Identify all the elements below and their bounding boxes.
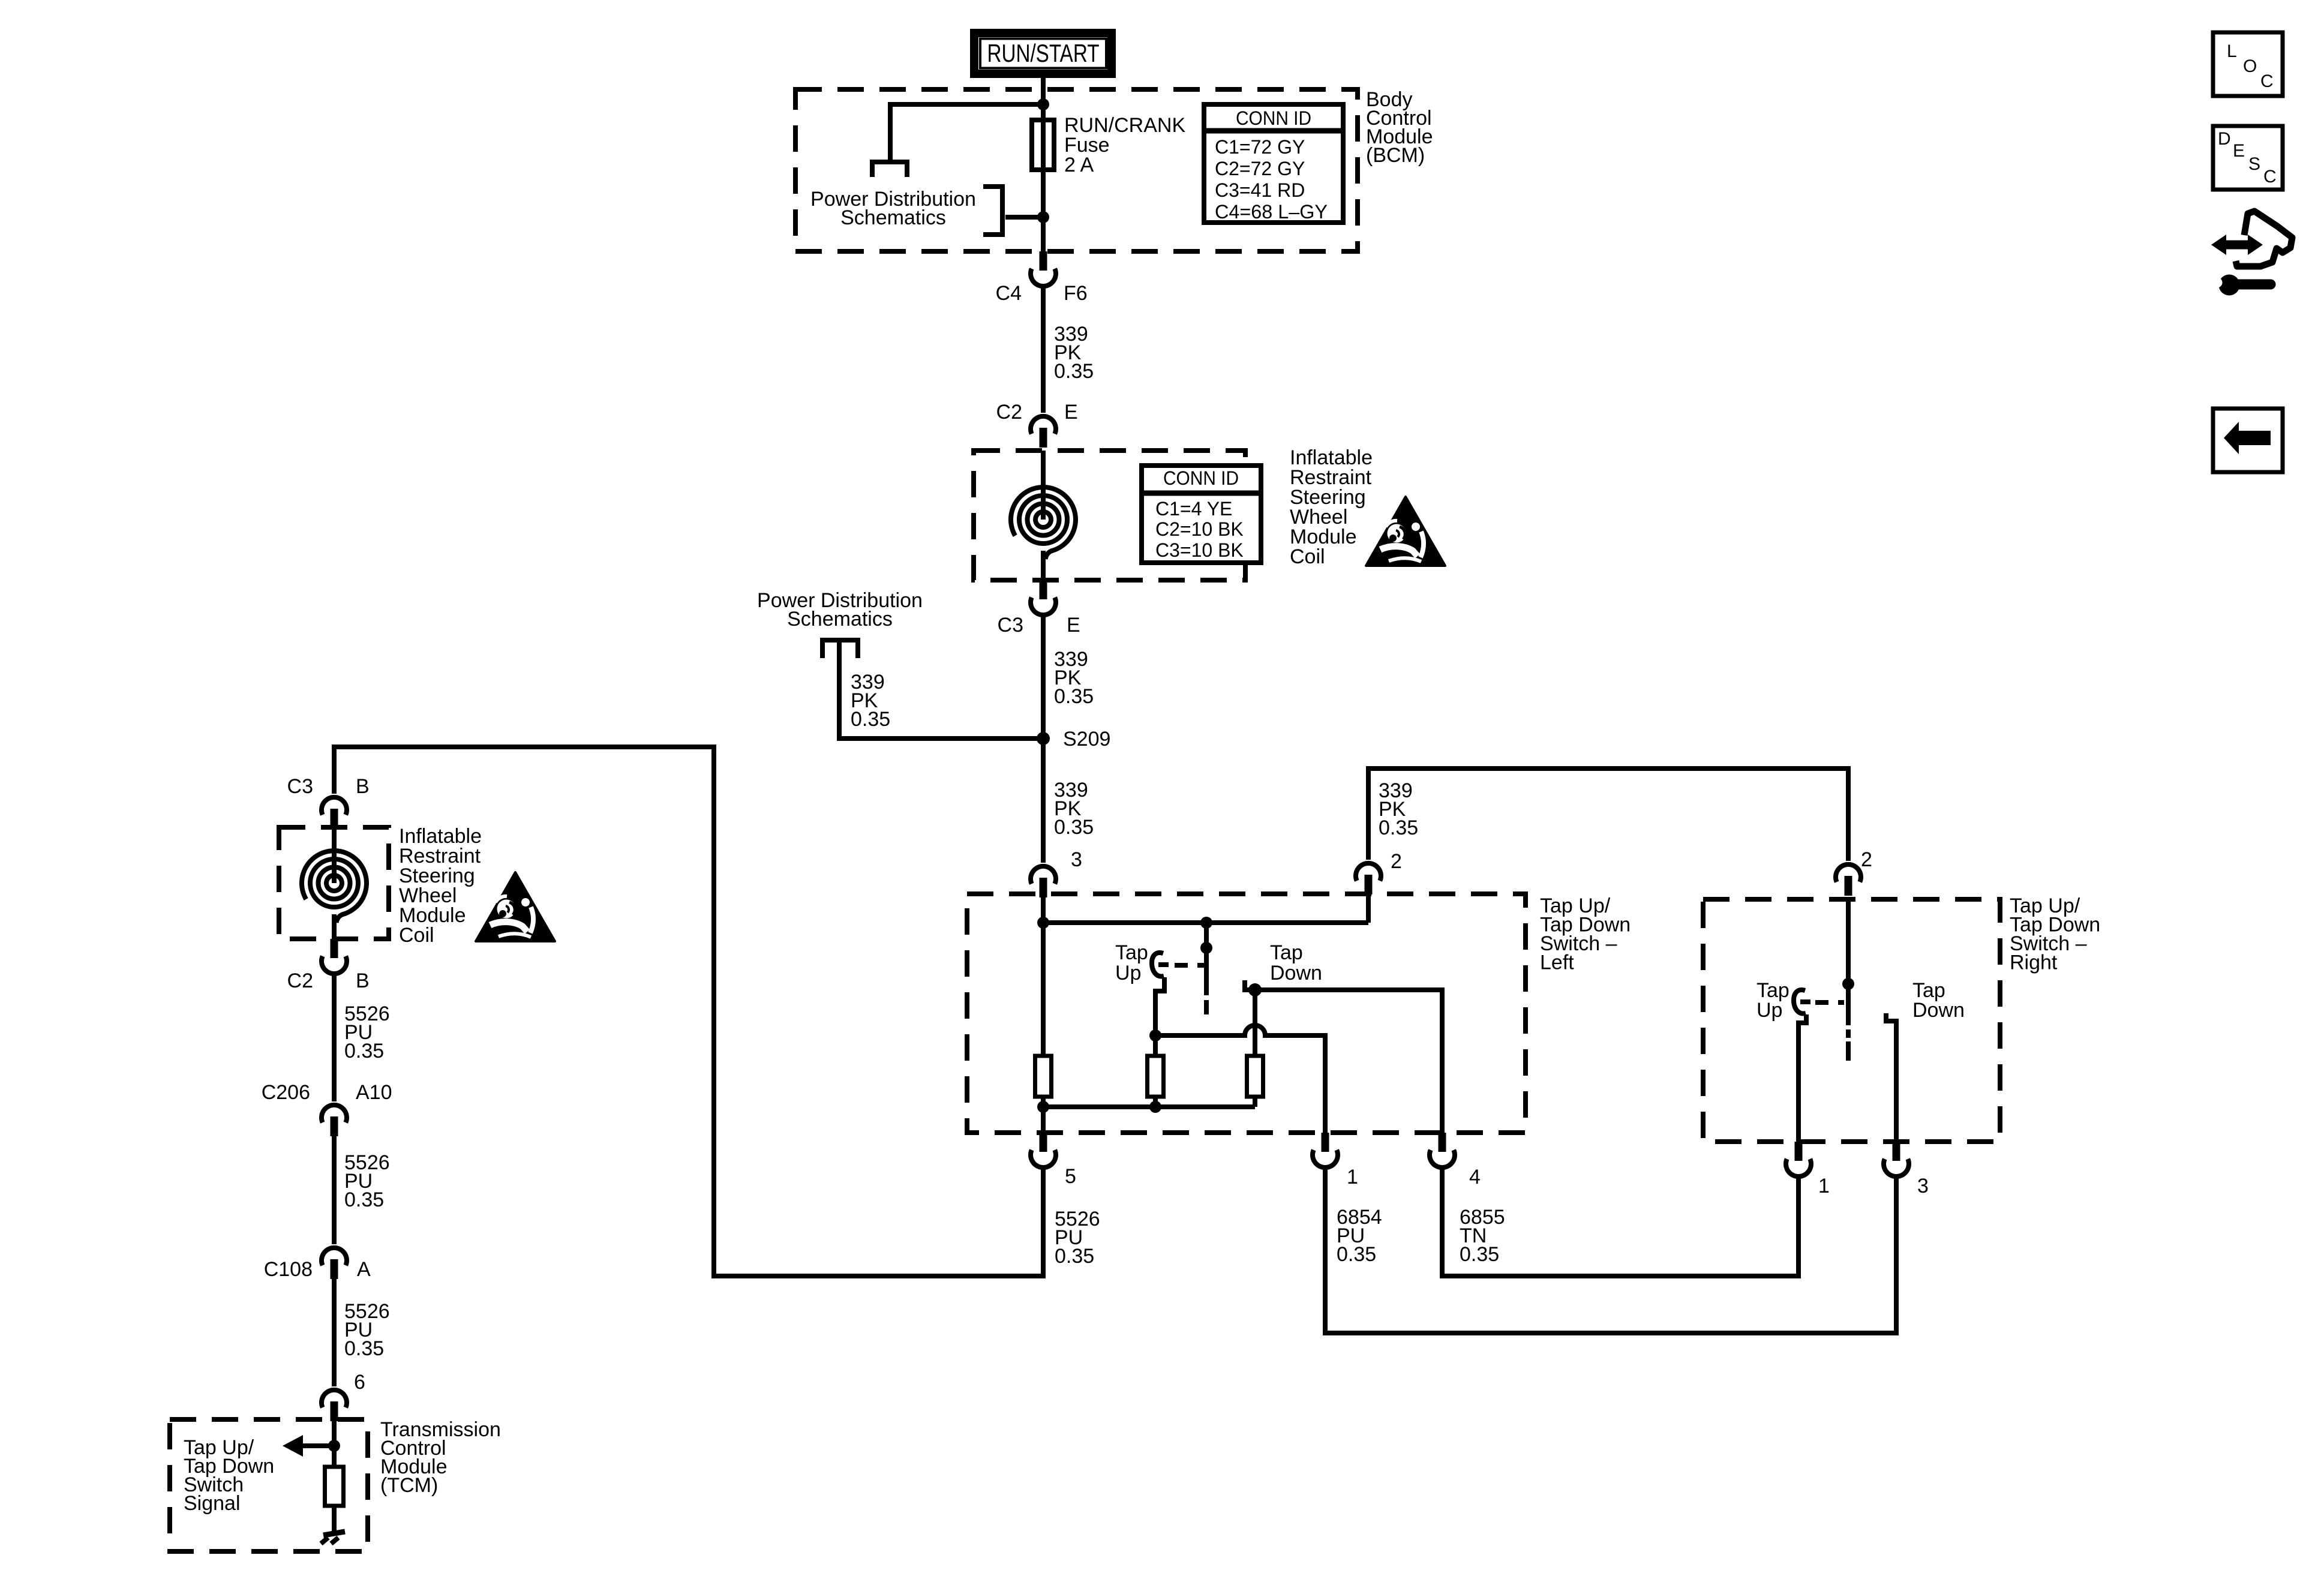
wire out of coil spiral (1041, 551, 1046, 580)
switch Tap Up (right box) (1794, 990, 1810, 1013)
svg-text:6: 6 (354, 1371, 365, 1394)
svg-text:E: E (1064, 401, 1078, 424)
wire 5526 PU 0.35 (C108 to TCM pin 6) (332, 1278, 337, 1386)
svg-text:Coil: Coil (399, 924, 434, 947)
label Tap Up/Tap Down Switch - Right (2010, 894, 2100, 974)
wire branch S209 to Power Distribution (839, 643, 1043, 739)
svg-text:2 A: 2 A (1064, 154, 1094, 176)
svg-text:C2: C2 (287, 969, 313, 992)
svg-text:1: 1 (1347, 1166, 1358, 1188)
switch Tap Up (left box) (1152, 953, 1169, 976)
label Tap Up/Tap Down Switch - Left (1540, 894, 1631, 974)
label Tap Up (right box) (1756, 979, 1789, 1022)
resistor R1 (left box) (1035, 1056, 1052, 1097)
mechanical linkage dashes (left box) (1175, 963, 1205, 968)
component box coil (left) (279, 827, 389, 939)
svg-text:0.35: 0.35 (1054, 816, 1094, 839)
svg-text:0.35: 0.35 (851, 708, 890, 731)
coil clockspring spiral (center) (1011, 487, 1076, 559)
junction bottom rail 2 (1149, 1101, 1161, 1113)
svg-text:(TCM): (TCM) (380, 1474, 438, 1497)
svg-text:2: 2 (1391, 850, 1402, 873)
junction tap-up pole (left box) (1200, 942, 1212, 954)
svg-text:S: S (2248, 154, 2260, 174)
label Tap Down (right box) (1912, 979, 1965, 1022)
svg-text:C4=68 L–GY: C4=68 L–GY (1215, 201, 1328, 223)
label 339 PK 0.35 (3) (1054, 779, 1094, 839)
svg-text:C: C (2260, 71, 2274, 91)
svg-text:C206: C206 (262, 1081, 310, 1104)
svg-text:5: 5 (1065, 1165, 1076, 1188)
svg-text:0.35: 0.35 (1054, 360, 1094, 383)
wire 339 PK 0.35 (to both switch pins 2) (1368, 769, 1848, 861)
wire tap-down output to pin 4 (left box) (1255, 990, 1442, 1133)
connector pin 2 (right switch) (1836, 864, 1861, 896)
wire tap-up contact to resistor (left box) (1155, 977, 1164, 1056)
label 6855 TN 0.35 (1460, 1206, 1505, 1266)
svg-text:Coil: Coil (1290, 545, 1325, 568)
svg-text:CONN ID: CONN ID (1163, 467, 1239, 489)
warning triangle SIR (left) (476, 872, 555, 941)
component box Inflatable Restraint Steering Wheel Module Coil (974, 451, 1245, 580)
svg-text:0.35: 0.35 (1460, 1243, 1499, 1266)
svg-text:C4: C4 (996, 282, 1022, 305)
module box Transmission Control Module (TCM) (170, 1419, 368, 1551)
connector C4 cavity F6 (BCM) (1031, 251, 1056, 286)
svg-text:0.35: 0.35 (1379, 816, 1418, 839)
svg-text:D: D (2218, 129, 2231, 149)
warning triangle SIR (center) (1366, 497, 1445, 566)
fuse RUN/CRANK Fuse 2 A (1032, 120, 1054, 170)
junction TCM signal node (328, 1440, 340, 1452)
wire tap-up output to pin 1 with hop (1155, 1025, 1325, 1133)
svg-text:0.35: 0.35 (1337, 1243, 1376, 1266)
svg-text:(BCM): (BCM) (1366, 144, 1425, 167)
connector pin 2 (left switch) (1356, 863, 1381, 894)
wire tap-up contact to pin 1 (right box) (1798, 1014, 1806, 1142)
label 5526 PU 0.35 (2) (344, 1151, 390, 1211)
wire 6855 TN 0.35 (left pin4 to right pin1) (1442, 1167, 1798, 1276)
icon button back arrow (2213, 409, 2283, 472)
label 6854 PU 0.35 (1337, 1206, 1382, 1266)
mechanical linkage dashes (right box) (1815, 1000, 1844, 1005)
wire tap-up pole (left box) (1204, 923, 1209, 995)
label 339 PK 0.35 (branch) (851, 671, 890, 731)
off-page connector tab Power Distribution Schematics (983, 187, 1002, 235)
svg-text:0.35: 0.35 (1055, 1245, 1094, 1268)
svg-text:C1=4 YE: C1=4 YE (1155, 498, 1232, 520)
label Inflatable Restraint Steering Wheel Module Coil (center) (1290, 446, 1373, 568)
connector C108 cavity A (322, 1248, 347, 1279)
svg-text:C2=10 BK: C2=10 BK (1155, 518, 1244, 540)
wire TCM input (332, 1420, 337, 1467)
label 5526 PU 0.35 (pin 5) (1055, 1208, 1100, 1268)
svg-text:F6: F6 (1064, 282, 1088, 305)
label 5526 PU 0.35 (1) (344, 1002, 390, 1062)
svg-text:2: 2 (1861, 848, 1872, 871)
label Tap Down (left box) (1270, 941, 1322, 984)
svg-text:B: B (356, 775, 370, 798)
wire 5526 PU 0.35 (C2 to C206) (332, 975, 337, 1101)
junction left box rail 2 (1200, 917, 1212, 929)
wire tap-down to resistor (left box) (1253, 990, 1257, 1056)
wire branch to power distribution tab (890, 104, 1043, 160)
connector C3 cavity E (coil) (1031, 580, 1056, 615)
svg-text:E: E (1067, 614, 1080, 637)
svg-text:C2: C2 (996, 401, 1022, 424)
wire top rail (left box) (1043, 920, 1368, 925)
svg-text:Down: Down (1912, 999, 1965, 1022)
svg-text:Down: Down (1270, 962, 1322, 984)
junction tap-up output (left box) (1149, 1029, 1161, 1041)
switch box Tap Up/Tap Down Switch - Left (967, 894, 1526, 1133)
label 339 PK 0.35 (2) (1054, 648, 1094, 708)
wire out of left coil spiral (332, 914, 337, 939)
svg-text:Schematics: Schematics (840, 206, 946, 229)
junction left box rail 1 (1037, 917, 1049, 929)
table CONN ID (coil) (1139, 466, 1263, 563)
label Inflatable Restraint Steering Wheel Module Coil (left) (399, 825, 482, 947)
label 339 PK 0.35 (1) (1054, 323, 1094, 383)
svg-text:Signal: Signal (184, 1492, 241, 1515)
switch contact stubs (right box pole) (1846, 1029, 1851, 1061)
label 339 PK 0.35 (4) (1379, 779, 1418, 839)
svg-text:A: A (357, 1258, 371, 1281)
icon button DESC (2213, 126, 2283, 190)
wire 339 PK 0.35 (C3 to S209) (1041, 616, 1046, 739)
wire into coil spiral (1041, 451, 1046, 520)
icon repair (arrow + wrench) (2211, 211, 2292, 296)
icon button LOC (2213, 32, 2283, 96)
connector pin 1 (left switch) (1313, 1133, 1338, 1167)
switch Tap Down fixed contact (left box) (1245, 980, 1251, 990)
connector pin 1 (right switch) (1786, 1142, 1811, 1176)
svg-text:L: L (2227, 41, 2237, 61)
label Body Control Module (BCM) (1366, 88, 1433, 167)
module box Body Control Module (BCM) (795, 89, 1358, 251)
svg-text:0.35: 0.35 (344, 1337, 384, 1360)
splice S209 (1037, 732, 1050, 745)
wire pin3 column to resistor (left box) (1041, 894, 1046, 1056)
connector C2 cavity B (left coil) (322, 939, 347, 974)
connector pin 6 (TCM) (322, 1390, 347, 1421)
svg-text:0.35: 0.35 (1054, 685, 1094, 708)
svg-text:RUN/START: RUN/START (987, 39, 1100, 67)
svg-text:C3=10 BK: C3=10 BK (1155, 539, 1244, 561)
svg-text:1: 1 (1818, 1175, 1830, 1197)
resistor R4 (TCM pull-down) (325, 1467, 344, 1506)
svg-text:B: B (356, 969, 370, 992)
svg-text:4: 4 (1469, 1166, 1481, 1188)
svg-text:A10: A10 (356, 1081, 392, 1104)
junction pole (right box) (1842, 978, 1854, 990)
wire resistor to ground (332, 1506, 337, 1532)
svg-text:Tap: Tap (1270, 941, 1303, 964)
resistor R2 (left box) (1148, 1056, 1164, 1097)
wire into left coil spiral (332, 827, 337, 883)
svg-text:C3: C3 (287, 775, 313, 798)
switch box Tap Up/Tap Down Switch - Right (1703, 899, 2000, 1142)
svg-text:S209: S209 (1063, 728, 1110, 751)
label Power Distribution Schematics (S209) (757, 589, 923, 631)
label Transmission Control Module (TCM) (380, 1418, 501, 1497)
connector pin 4 (left switch) (1430, 1133, 1455, 1167)
junction tap-down (left box) (1248, 983, 1262, 996)
wire branch to Power Distribution Schematics tab (1005, 215, 1043, 220)
resistor R3 (left box) (1247, 1056, 1263, 1097)
wire 5526 PU 0.35 (C206 to C108) (332, 1135, 337, 1244)
wire pin2 entry (left box) (1366, 894, 1371, 923)
svg-text:0.35: 0.35 (344, 1188, 384, 1211)
svg-text:Up: Up (1115, 962, 1141, 984)
connector pin 3 (left switch) (1031, 866, 1056, 897)
power feed box RUN/START (974, 33, 1112, 74)
off-page connector tab (BCM internal feed) (872, 162, 907, 177)
wire 5526 PU 0.35 (pin5 loop to coil C3) (334, 747, 1043, 1276)
svg-text:0.35: 0.35 (344, 1040, 384, 1062)
svg-text:C: C (2263, 167, 2277, 187)
junction S-BCM-1 (1037, 98, 1049, 110)
wire 339 PK 0.35 (S209 to switch pin 3) (1041, 739, 1046, 863)
svg-text:Up: Up (1756, 999, 1782, 1022)
label Tap Up (left box) (1115, 941, 1148, 984)
label 5526 PU 0.35 (3) (344, 1300, 390, 1360)
junction S-BCM-2 (1037, 211, 1049, 223)
wire R3 to rail (1253, 1097, 1257, 1107)
connector C2 cavity E (coil) (1031, 416, 1056, 448)
signal arrow Tap Up/Tap Down Switch Signal (283, 1435, 334, 1457)
wire 339 PK 0.35 (C4 to coil C2) (1041, 288, 1046, 413)
svg-text:O: O (2243, 56, 2257, 76)
wire R2 to rail (1153, 1097, 1158, 1107)
label RUN/CRANK Fuse 2 A (1064, 114, 1185, 176)
svg-text:Tap: Tap (1115, 941, 1148, 964)
svg-text:Schematics: Schematics (787, 608, 893, 631)
junction bottom rail 1 (1037, 1101, 1049, 1113)
wire bottom rail (left box) (1043, 1104, 1255, 1109)
svg-text:Left: Left (1540, 951, 1574, 974)
svg-text:C3: C3 (998, 614, 1023, 637)
svg-text:3: 3 (1917, 1175, 1929, 1197)
connector pin 3 (right switch) (1884, 1142, 1909, 1176)
svg-text:Right: Right (2010, 951, 2058, 974)
connector C206 cavity A10 (322, 1105, 347, 1136)
table CONN ID (BCM) (1202, 104, 1346, 223)
wire from RUN/START through fuse to C4 (1041, 78, 1046, 253)
coil clockspring spiral (left) (302, 851, 367, 923)
wire R1 to pin 5 (1041, 1097, 1046, 1133)
svg-text:C108: C108 (264, 1258, 313, 1281)
switch Tap Down fixed contact (right box) (1886, 1013, 1896, 1142)
wire pole (right box) (1846, 899, 1851, 1025)
wire 6854 PU 0.35 (left pin1 to right pin3) (1325, 1167, 1896, 1333)
label Tap Up/Tap Down Switch Signal (184, 1436, 274, 1515)
connector pin 5 (left switch) (1031, 1133, 1056, 1167)
svg-text:C3=41 RD: C3=41 RD (1215, 179, 1305, 201)
connector C3 cavity B (left coil) (322, 797, 347, 828)
off-page connector tab Power Distribution Schematics (S209 branch) (822, 640, 858, 658)
svg-text:C1=72 GY: C1=72 GY (1215, 136, 1305, 158)
svg-text:C2=72 GY: C2=72 GY (1215, 158, 1305, 179)
svg-text:3: 3 (1071, 848, 1082, 871)
label Power Distribution Schematics (BCM) (810, 188, 976, 229)
ground (TCM chassis ground) (321, 1532, 345, 1544)
switch contact stub (left box tap up pole) (1204, 1000, 1209, 1014)
svg-text:CONN ID: CONN ID (1236, 107, 1311, 129)
svg-text:E: E (2233, 141, 2245, 161)
